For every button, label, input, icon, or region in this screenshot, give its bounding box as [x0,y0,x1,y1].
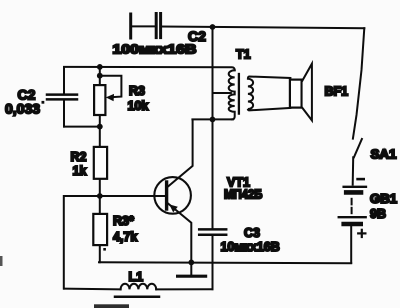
resistor R3* body [93,214,107,245]
svg-text:R3: R3 [129,84,145,98]
wire bottom rail left of L1 [64,288,121,291]
svg-text:10k: 10k [128,99,149,113]
wire bottom rail right of L1 [156,288,212,290]
speaker BF1 cone [302,64,312,121]
wire bottom horizontal to battery [99,262,351,263]
transistor VT1 base bar [165,182,168,209]
ground [190,262,192,274]
svg-text:4,7k: 4,7k [113,230,137,244]
asterisk mark [42,101,45,104]
capacitor C2 (0,033) [47,67,77,127]
svg-text:100мкх16В: 100мкх16В [113,42,197,57]
capacitor C3 plates [199,228,226,231]
transistor VT1 emitter arrow [169,204,178,212]
transistor VT1 emitter [168,203,191,262]
scan smudges [0,256,129,308]
svg-text:R2: R2 [71,150,87,164]
inductor L1 [121,284,157,290]
wire right rail down to switch [353,28,364,138]
svg-text:9В: 9В [370,207,386,221]
capacitor C2 (100мкх16В) top, three bars [131,14,161,39]
wire battery bottom lead [350,227,352,263]
svg-text:0,033: 0,033 [5,101,40,117]
asterisk mark near R3* [103,248,106,251]
svg-text:10мкх16В: 10мкх16В [221,240,280,254]
wire switch to battery [352,157,355,184]
wire riser from bottom rail to emitter wire [212,263,214,289]
svg-text:R3*: R3* [113,214,134,228]
potentiometer R3 leads [99,67,101,127]
transistor VT1 collector [168,121,193,187]
svg-text:SA1: SA1 [371,148,397,162]
svg-text:1k: 1k [73,164,87,178]
wire left rail and base wire [64,196,165,289]
svg-text:МП42Б: МП42Б [224,188,263,202]
node dots [97,24,216,265]
resistor R2 body [94,147,107,179]
wire vertical x212 from top rail to collector wire [212,27,214,119]
svg-text:BF1: BF1 [325,85,349,99]
svg-text:L1: L1 [129,270,144,284]
wire collector horizontal y119 [192,118,233,120]
resistor R3* leads [99,196,101,262]
svg-text:GB1: GB1 [370,192,397,206]
transformer core [238,74,240,114]
speaker BF1 driver box [290,80,302,108]
wire top rail to right corner [161,27,365,29]
transformer T1 primary winding [229,70,235,119]
transformer T1 secondary winding [248,77,291,111]
wire top rail between C2 bars [131,25,156,27]
switch SA1 blade [354,139,362,157]
potentiometer R3 wiper [100,76,122,98]
transistor VT1 circle [154,177,191,214]
capacitor C3 leads [212,119,214,263]
potentiometer R3 body [94,85,105,115]
wire horizontal y67 to transformer [64,67,235,70]
wire y126 between C2 and R3 [64,126,100,128]
battery GB1 [339,179,366,237]
resistor R2 leads [99,127,101,196]
wire transformer center tap [213,92,231,94]
svg-text:C3: C3 [244,226,260,240]
svg-text:T1: T1 [236,48,251,62]
